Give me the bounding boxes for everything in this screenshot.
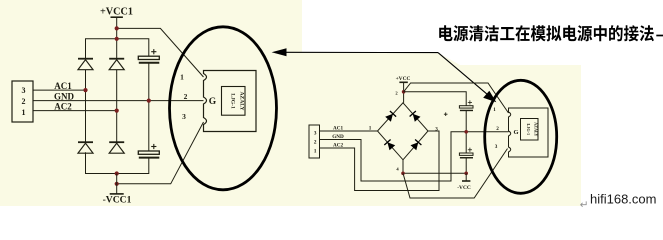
svg-text:AZALY: AZALY [239,91,245,110]
cropped dash after title [656,35,663,37]
white area around title [302,0,581,65]
connector J2 box [309,125,320,158]
pin 2 label [184,92,188,101]
junction -VCC a [401,172,405,176]
svg-text:-VCC1: -VCC1 [103,195,132,206]
power -VCC1 [103,174,132,206]
bottom bus wire [86,152,149,173]
junction dot 3 [115,171,119,175]
wire +VCC to pin1 [404,83,509,113]
stray plus mark [444,112,448,116]
svg-text:3: 3 [435,127,438,133]
svg-text:1: 1 [493,107,496,113]
capacitor C1 [138,49,159,63]
svg-text:AC2: AC2 [333,143,343,149]
svg-text:3: 3 [182,112,186,121]
svg-text:LJG-1: LJG-1 [230,93,236,109]
module U2 inner box [521,119,539,141]
bridge diode top-right [410,111,421,122]
top bus wire [86,39,149,59]
arrow to right ellipse [438,53,496,103]
label G [209,97,217,107]
capacitor C4 [459,148,473,158]
bridge diode top-left [385,111,396,122]
svg-text:G: G [513,129,518,136]
wire GND right [320,132,509,181]
svg-text:AC1: AC1 [333,126,343,132]
junction GND-caps [464,130,468,134]
capacitor C2 [138,144,159,158]
module U1 inner box [222,87,246,116]
label GND wire [33,91,204,101]
arrow to left ellipse [272,48,438,56]
diode D3 [78,142,93,153]
bridge diode bottom-left [384,140,395,151]
node -VCC1 to pin3 wire [117,122,204,184]
wire -VCC to pin3 [403,149,508,199]
watermark hifi168.com [590,192,656,207]
junction dot 4 [115,182,119,186]
pin 1 label [180,72,184,81]
pin labels right [493,107,499,150]
svg-text:GND: GND [54,91,75,101]
highlight ellipse left [170,27,277,190]
wire bridge to -VCC [403,160,466,174]
power -VCC right [457,173,471,191]
watermark return glyph [580,199,589,211]
wire +VCC to C3 [404,92,467,106]
svg-text:1: 1 [369,126,372,132]
junction dot 1 [115,26,119,30]
svg-text:3: 3 [314,130,317,136]
junction GND-cap [147,99,151,103]
wire AC1 [33,81,86,91]
title text [439,25,654,41]
capacitor C3 [459,100,473,110]
svg-text:2: 2 [22,97,26,106]
svg-text:1: 1 [314,148,317,154]
wire AC2 right [320,131,440,191]
bridge diode bottom-right [411,140,422,151]
wire AC2 [33,101,117,111]
svg-text:2: 2 [496,126,499,132]
pin 3 label [182,112,186,121]
wire AC1 right [320,126,378,132]
svg-text:hifi168.com: hifi168.com [590,192,656,207]
svg-text:+VCC: +VCC [396,76,411,82]
junction +VCC right [402,90,406,94]
svg-text:-VCC: -VCC [457,185,471,191]
svg-text:G: G [209,97,217,107]
diode D4 [109,142,124,153]
junction -VCC b [464,172,468,176]
module U2 box [509,108,549,157]
svg-text:2: 2 [314,139,317,145]
junction dot 2 [115,37,119,41]
junction AC2-D2 [115,109,119,113]
svg-text:1: 1 [180,72,184,81]
svg-text:AC1: AC1 [54,81,72,91]
power +VCC right [396,76,411,103]
C1-C2 lead wire [148,63,150,151]
label G right [513,129,518,136]
connector J1 box [12,81,33,122]
schematic canvas [0,0,581,206]
diode D1 [78,59,93,70]
svg-text:1: 1 [22,108,26,117]
bridge rectifier outline [378,103,429,160]
power +VCC1 [100,7,133,59]
bridge pin labels [369,91,439,172]
svg-text:+VCC1: +VCC1 [100,7,133,18]
D2 lead wire [116,70,118,143]
svg-text:3: 3 [22,86,26,95]
D1 lead wire [85,70,87,143]
svg-text:2: 2 [184,92,188,101]
svg-text:3: 3 [495,144,498,150]
svg-text:LJG-1: LJG-1 [526,123,531,135]
svg-text:AZALY: AZALY [534,122,539,136]
highlight ellipse right [485,80,557,193]
svg-text:AC2: AC2 [54,101,72,111]
C4 lead [465,158,467,173]
module U1 box [204,71,257,132]
diode D2 [109,59,124,70]
svg-text:GND: GND [332,134,344,140]
junction AC1-D1 [83,88,87,92]
svg-text:↵: ↵ [580,199,589,211]
C3 lead [465,111,467,153]
node +VCC1 to pin1 wire [117,28,204,77]
